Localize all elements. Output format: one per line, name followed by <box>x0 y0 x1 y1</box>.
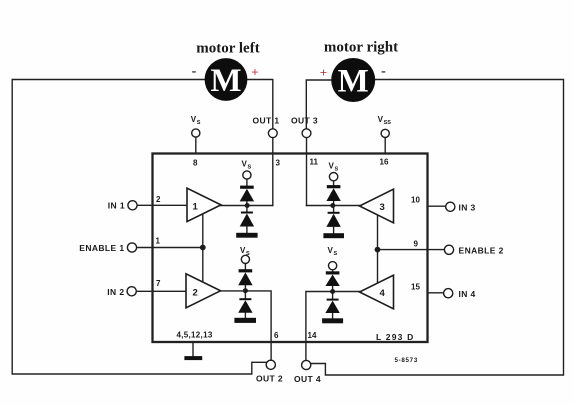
chain1 node-to-diode2 wire <box>246 227 248 233</box>
chain3 diode2-to-ground wire <box>333 227 335 233</box>
wire: IN1 to amp 1 input <box>137 204 187 206</box>
chain2 diode2-to-ground wire <box>244 313 246 318</box>
terminal OUT2 <box>266 360 275 369</box>
diode D3 upper (to Vs) <box>326 185 340 201</box>
wire: IN4 to amp 4 input <box>428 292 444 294</box>
terminal Vs chain1 <box>243 171 251 179</box>
wire: enable2 junction to amp3 <box>377 215 379 250</box>
svg-text:IN 1: IN 1 <box>108 201 125 211</box>
svg-text:IN 2: IN 2 <box>107 287 124 297</box>
wire: ENABLE1 to junction <box>137 247 203 249</box>
wire: enable1 junction to amp1 <box>202 214 204 248</box>
wire: enable2 junction to amp4 <box>377 250 379 284</box>
node Vss terminal stub <box>384 138 386 154</box>
svg-text:S: S <box>197 120 201 126</box>
terminal Vss <box>381 129 389 137</box>
ground bar chain1 <box>236 233 257 238</box>
svg-text:10: 10 <box>411 196 420 205</box>
svg-text:OUT 3: OUT 3 <box>291 116 318 126</box>
svg-text:3: 3 <box>276 159 281 168</box>
svg-text:+: + <box>251 65 258 80</box>
svg-text:L 293 D: L 293 D <box>376 332 414 342</box>
svg-text:+: + <box>320 65 327 80</box>
wire: IN3 to amp 3 input <box>428 205 446 207</box>
ground bar chain2 <box>234 318 256 323</box>
terminal IN1 <box>128 201 137 210</box>
svg-text:15: 15 <box>411 283 420 292</box>
chain2 diode wires <box>244 285 246 298</box>
terminal OUT1 <box>268 129 277 138</box>
svg-text:ENABLE 2: ENABLE 2 <box>459 246 504 256</box>
wire: motor right plus to OUT3 terminal <box>306 80 331 129</box>
wire: OUT1 into IC (pin 3) <box>272 138 274 206</box>
chain4 diode2-to-ground wire <box>332 313 334 318</box>
svg-text:M: M <box>210 63 241 99</box>
svg-text:OUT 4: OUT 4 <box>294 374 321 384</box>
motor M2 motor right <box>331 58 375 102</box>
terminal OUT3 <box>302 129 311 138</box>
svg-text:S: S <box>334 251 338 257</box>
svg-text:2: 2 <box>193 288 198 299</box>
chain3 diode wires <box>333 201 335 212</box>
svg-text:11: 11 <box>310 158 319 167</box>
svg-text:S: S <box>248 165 252 171</box>
wire: motor left plus to OUT1 terminal <box>248 80 273 129</box>
chain4 diode wires <box>332 286 334 299</box>
chain3 Vs stub <box>333 181 335 185</box>
wire: amp2 output to pin 6, down to OUT2 <box>221 291 272 360</box>
node: out3 junction <box>330 203 335 208</box>
wire: amp4 output node to pin 14, down to OUT4 <box>306 292 360 361</box>
IC body L293D <box>153 154 428 343</box>
svg-text:5-8573: 5-8573 <box>395 357 418 364</box>
wire: OUT3 into IC (pin 11) <box>306 138 308 206</box>
diode D4 upper (to Vs) <box>325 271 339 286</box>
svg-text:SS: SS <box>384 120 392 126</box>
node: out1 junction <box>245 203 250 208</box>
node: out4 junction <box>330 289 335 294</box>
svg-text:ENABLE 1: ENABLE 1 <box>79 243 124 253</box>
node: enable1 junction <box>200 245 206 251</box>
svg-text:OUT 1: OUT 1 <box>252 116 279 126</box>
svg-text:S: S <box>335 167 339 173</box>
svg-text:1: 1 <box>193 202 199 213</box>
svg-text:OUT 2: OUT 2 <box>256 374 283 384</box>
wire: pin11 to amp3 output node <box>307 205 360 207</box>
svg-text:motor right: motor right <box>324 40 398 56</box>
chain4 Vs stub <box>332 270 334 272</box>
ground symbol (pins 4,5,12,13) <box>184 356 202 360</box>
ground bar chain4 <box>322 318 343 323</box>
terminal Vs chain3 <box>329 173 337 181</box>
op-amp U3 (driver 3) <box>360 189 394 223</box>
terminal Vs chain2 <box>241 255 249 263</box>
terminal OUT4 <box>302 360 311 369</box>
svg-text:4: 4 <box>380 288 386 299</box>
op-amp U4 (driver 4) <box>360 275 394 309</box>
terminal IN3 <box>446 202 455 211</box>
ground bar chain3 <box>323 233 344 238</box>
terminal Vs <box>192 129 200 137</box>
amp U1 output node wire to pin3 <box>221 205 273 207</box>
wire: enable1 junction to amp2 <box>202 248 204 283</box>
diode D4 lower (to ground) <box>325 299 339 313</box>
svg-text:14: 14 <box>308 331 317 340</box>
svg-text:2: 2 <box>156 195 161 204</box>
svg-text:8: 8 <box>193 159 198 168</box>
diode D1 upper (to Vs) <box>240 186 254 202</box>
terminal ENABLE1 <box>127 243 136 252</box>
chain2 Vs stub <box>244 264 246 270</box>
chain1 Vs stub <box>246 179 248 185</box>
chain1 diode-to-node wire <box>246 201 248 211</box>
svg-text:4,5,12,13: 4,5,12,13 <box>177 331 213 340</box>
terminal IN4 <box>444 289 453 298</box>
svg-text:7: 7 <box>156 279 161 288</box>
node: enable2 junction <box>375 247 381 253</box>
svg-text:motor left: motor left <box>196 41 259 57</box>
svg-text:9: 9 <box>414 240 419 249</box>
svg-text:IN 3: IN 3 <box>459 203 476 213</box>
node Vs terminal stub <box>195 137 197 153</box>
op-amp U2 (driver 2) <box>186 274 221 308</box>
svg-text:16: 16 <box>380 158 389 167</box>
terminal ENABLE2 <box>444 245 453 254</box>
svg-text:-: - <box>192 64 197 79</box>
wire: outer loop right (motor right minus to OUT4) <box>311 80 564 376</box>
wire: outer loop left (motor left minus to OUT2) <box>12 80 266 375</box>
diode D1 lower (to ground) <box>240 212 254 227</box>
svg-text:1: 1 <box>156 237 161 246</box>
diode D2 lower (to ground) <box>238 298 252 313</box>
terminal IN2 <box>127 287 136 296</box>
wire: ENABLE2 to junction <box>378 249 445 251</box>
svg-text:IN 4: IN 4 <box>459 289 476 299</box>
svg-text:6: 6 <box>274 331 279 340</box>
svg-text:M: M <box>338 64 369 100</box>
op-amp U1 (driver 1) <box>187 188 221 221</box>
svg-text:-: - <box>381 64 386 79</box>
svg-text:3: 3 <box>380 202 385 213</box>
ground stub pins 4,5,12,13 <box>192 343 194 356</box>
terminal Vs chain4 <box>329 262 337 270</box>
motor M1 motor left <box>205 58 248 101</box>
diode D2 upper (to Vs) <box>238 269 252 285</box>
diode D3 lower (to ground) <box>326 212 340 227</box>
wire: IN2 to amp 2 input <box>136 290 186 292</box>
node: out2 junction <box>243 288 248 293</box>
